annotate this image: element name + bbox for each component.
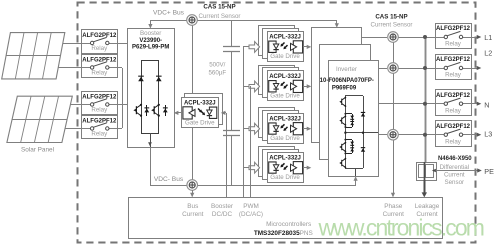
svg-text:CAS 15-NP: CAS 15-NP xyxy=(203,3,235,10)
current sensor CAS15-NP on VDC+ bus xyxy=(187,15,198,26)
svg-text:Gate Drive: Gate Drive xyxy=(270,93,300,100)
inverter stacked module boxes xyxy=(312,28,371,160)
svg-text:Gate Drive: Gate Drive xyxy=(270,53,300,60)
wire PWM stub 2 xyxy=(243,86,249,88)
wire panel2 to relay K4 xyxy=(65,128,81,130)
gate driver ACPL-332J stack 3 (inverter) xyxy=(259,108,304,144)
svg-text:Phase: Phase xyxy=(384,203,403,210)
svg-text:P629-L99-PM: P629-L99-PM xyxy=(132,45,169,51)
booster IGBT Q2 xyxy=(133,60,167,147)
label Differential Current Sensor xyxy=(440,164,469,186)
svg-text:ACPL-332J: ACPL-332J xyxy=(184,101,216,107)
label PWM (DC/AC) xyxy=(239,203,263,218)
svg-text:Relay: Relay xyxy=(91,131,108,138)
relay ALFG2PF12 (input 4) xyxy=(81,116,118,139)
wire output L2 with arrow xyxy=(471,66,481,70)
wire PWM stub 3 xyxy=(243,128,249,130)
svg-text:DC/DC: DC/DC xyxy=(212,211,233,218)
microcontroller TMS320F28035PNS xyxy=(129,198,443,239)
junction dot xyxy=(423,102,427,106)
label Phase Current xyxy=(383,203,405,218)
relay ALFG2PF12 (input 3) xyxy=(81,92,118,115)
inverter freewheel diode lower xyxy=(339,96,378,177)
svg-text:www.cntronics.com: www.cntronics.com xyxy=(318,214,484,240)
svg-text:ALFG2PF12: ALFG2PF12 xyxy=(436,26,471,32)
gate driver ACPL-332J stack 1 (inverter) xyxy=(259,26,304,62)
svg-text:TMS320F28035PNS: TMS320F28035PNS xyxy=(254,230,313,237)
svg-text:PWM: PWM xyxy=(243,203,259,210)
wire output N with arrow xyxy=(471,102,481,106)
wire panel1 to relay K2 xyxy=(58,67,81,69)
label VDC+ Bus xyxy=(153,10,185,17)
label TMS320F28035PNS xyxy=(254,230,313,237)
svg-text:Relay: Relay xyxy=(445,72,462,79)
relay ALFG2PF12 (output L3) xyxy=(435,121,472,147)
label Current Sensor (phase) xyxy=(371,22,413,29)
svg-text:ALFG2PF12: ALFG2PF12 xyxy=(82,33,117,39)
svg-text:(DC/AC): (DC/AC) xyxy=(239,211,263,218)
svg-text:500V/: 500V/ xyxy=(209,61,225,68)
junction dot xyxy=(423,35,427,39)
svg-text:Bus: Bus xyxy=(187,203,198,210)
svg-text:ALFG2PF12: ALFG2PF12 xyxy=(436,57,471,63)
svg-text:L2: L2 xyxy=(484,48,492,57)
wire inverter L1 output xyxy=(361,37,435,39)
DC link wire to capacitors xyxy=(231,20,233,185)
svg-text:Gate Drive: Gate Drive xyxy=(270,174,300,181)
relay ALFG2PF12 (output L2) xyxy=(435,55,472,80)
leakage conductor through sensor xyxy=(422,162,427,197)
PE wire from sensor xyxy=(432,168,482,172)
wire gate drive 4 output arrow to inverter xyxy=(303,166,311,170)
svg-text:PE: PE xyxy=(484,167,494,176)
PWM input hollow arrow 4 xyxy=(249,162,260,173)
wire PWM stub 1 xyxy=(243,46,249,48)
relay ALFG2PF12 (input 2) xyxy=(81,55,118,78)
label Leakage Current xyxy=(415,203,440,218)
svg-text:Relay: Relay xyxy=(91,45,108,52)
svg-text:ALFG2PF12: ALFG2PF12 xyxy=(82,119,117,125)
svg-text:Relay: Relay xyxy=(445,41,462,48)
wire gate drive 2 output arrow to inverter xyxy=(303,84,311,88)
inverter 10-F006NPA070FP-P969F09 front box xyxy=(320,61,379,177)
phase sense chain wire xyxy=(391,42,395,197)
wire inverter N output xyxy=(378,103,435,105)
svg-text:N: N xyxy=(484,100,489,109)
wire PWM DC/DC from micro to ACPL xyxy=(221,111,227,198)
label N xyxy=(484,100,489,109)
svg-text:P969F09: P969F09 xyxy=(332,86,357,92)
svg-text:Leakage: Leakage xyxy=(415,203,440,210)
wire ACPL booster drive output arrow xyxy=(174,111,181,115)
wire PWM DC/AC line A to micro xyxy=(243,47,245,198)
label PE xyxy=(484,167,494,176)
svg-text:Current Sensor: Current Sensor xyxy=(199,13,241,20)
svg-text:N4646-X950: N4646-X950 xyxy=(438,156,472,162)
label N4646-X950 xyxy=(438,156,472,162)
label Bus Current xyxy=(182,203,204,218)
watermark www.cntronics.com xyxy=(318,214,484,240)
svg-text:ACPL-332J: ACPL-332J xyxy=(269,116,301,122)
relay ALFG2PF12 (output N) xyxy=(435,90,472,116)
label: Solar Panel xyxy=(21,147,54,154)
wire PWM stub 4 xyxy=(243,167,249,169)
svg-text:VDC+ Bus: VDC+ Bus xyxy=(153,10,185,17)
current sensor CAS15-NP on VDC- bus xyxy=(187,180,198,191)
svg-text:L1: L1 xyxy=(484,33,492,42)
wire relay K2 to DC bus xyxy=(117,67,122,69)
label 500V/560uF xyxy=(208,61,226,76)
gate driver ACPL-332J (booster) xyxy=(182,94,223,128)
svg-text:L3: L3 xyxy=(484,130,492,139)
svg-text:Sensor: Sensor xyxy=(444,179,464,186)
wire output L1 with arrow xyxy=(471,35,481,39)
label L3 xyxy=(484,130,492,139)
wire VDC+ bus into inverter xyxy=(335,20,339,28)
junction dot xyxy=(423,133,427,137)
wire relay K4 to DC bus xyxy=(117,128,122,130)
label VDC- Bus xyxy=(154,176,184,183)
svg-text:Gate Drive: Gate Drive xyxy=(185,120,215,127)
label L1 xyxy=(484,33,492,42)
svg-text:10-F006NPA070FP-: 10-F006NPA070FP- xyxy=(320,78,374,84)
PWM input hollow arrow 2 xyxy=(249,81,260,92)
wire bus current to microcontroller xyxy=(190,190,194,197)
svg-text:ACPL-332J: ACPL-332J xyxy=(269,155,301,161)
label Booster DC/DC xyxy=(211,203,234,218)
junction dot xyxy=(423,66,427,70)
svg-text:Relay: Relay xyxy=(91,107,108,114)
current sensor L1 xyxy=(388,32,399,43)
svg-text:ALFG2PF12: ALFG2PF12 xyxy=(82,95,117,101)
label CAS 15-NP (phase sensors) xyxy=(375,14,407,21)
svg-text:VDC- Bus: VDC- Bus xyxy=(154,176,184,183)
gate driver ACPL-332J stack 4 (inverter) xyxy=(259,147,304,183)
current sensor L2 xyxy=(388,63,399,74)
wire inverter L2 output xyxy=(378,68,435,70)
wire DC input bus vertical xyxy=(122,68,124,128)
wire gate drive 3 output arrow to inverter xyxy=(303,127,311,131)
svg-text:Relay: Relay xyxy=(445,107,462,114)
svg-text:ALFG2PF12: ALFG2PF12 xyxy=(436,93,471,99)
svg-text:Gate Drive: Gate Drive xyxy=(270,135,300,142)
svg-text:Microcontrollers: Microcontrollers xyxy=(266,221,311,228)
wire relay K1 to booster xyxy=(117,43,128,45)
svg-text:Inverter: Inverter xyxy=(336,66,357,73)
svg-text:Differential: Differential xyxy=(440,164,469,171)
PWM input hollow arrow 3 xyxy=(249,123,260,134)
svg-text:560µF: 560µF xyxy=(208,69,226,76)
svg-text:Relay: Relay xyxy=(445,138,462,145)
label Current Sensor (bus) xyxy=(199,13,241,20)
svg-text:Relay: Relay xyxy=(91,70,108,77)
wire output L3 with arrow xyxy=(471,133,481,137)
wire panel1 to relay K1 xyxy=(63,43,81,45)
leakage sense bus vertical xyxy=(425,37,427,162)
svg-text:CAS 15-NP: CAS 15-NP xyxy=(375,14,407,21)
wire gate drive 1 output arrow to inverter xyxy=(303,45,311,49)
svg-text:Booster: Booster xyxy=(140,30,161,37)
svg-text:V23990-: V23990- xyxy=(139,38,162,44)
svg-text:Booster: Booster xyxy=(211,203,234,210)
svg-text:Current: Current xyxy=(444,171,465,178)
svg-text:Current: Current xyxy=(182,211,204,218)
svg-text:ACPL-332J: ACPL-332J xyxy=(269,35,301,41)
capacitor C1 500V/560uF xyxy=(223,47,240,52)
svg-text:ALFG2PF12: ALFG2PF12 xyxy=(82,58,117,64)
wire PWM DC/AC line B to micro xyxy=(250,86,252,198)
VDC- bus wire xyxy=(150,147,358,186)
label L2 xyxy=(484,48,492,57)
solar panel array 1 xyxy=(2,33,65,79)
PWM input hollow arrow 1 xyxy=(249,42,260,53)
wire inverter L3 output xyxy=(378,134,435,136)
current sensor L3 xyxy=(388,129,399,140)
svg-text:ACPL-332J: ACPL-332J xyxy=(269,74,301,80)
wire bus-current sense vertical xyxy=(192,25,194,180)
VDC+ bus wire with arrow into booster xyxy=(148,20,337,29)
svg-text:Solar Panel: Solar Panel xyxy=(21,147,54,154)
differential current sensor N4646-X950 xyxy=(417,163,437,181)
solar panel array 2 xyxy=(7,96,72,142)
capacitor C2 xyxy=(223,131,240,136)
label CAS 15-NP (bus sensor) xyxy=(203,3,235,10)
svg-text:ALFG2PF12: ALFG2PF12 xyxy=(436,124,471,130)
svg-text:Current Sensor: Current Sensor xyxy=(371,22,413,29)
gate driver ACPL-332J stack 2 (inverter) xyxy=(259,66,304,101)
relay ALFG2PF12 (output L1) xyxy=(435,24,472,49)
wire relay K3 to booster xyxy=(117,104,128,106)
label Microcontrollers xyxy=(266,221,311,228)
relay ALFG2PF12 (input 1) xyxy=(81,30,118,54)
system boundary dashed frame xyxy=(78,3,476,243)
wire panel2 to relay K3 xyxy=(70,104,81,106)
booster V23990-P629-L99-PM xyxy=(128,29,175,148)
